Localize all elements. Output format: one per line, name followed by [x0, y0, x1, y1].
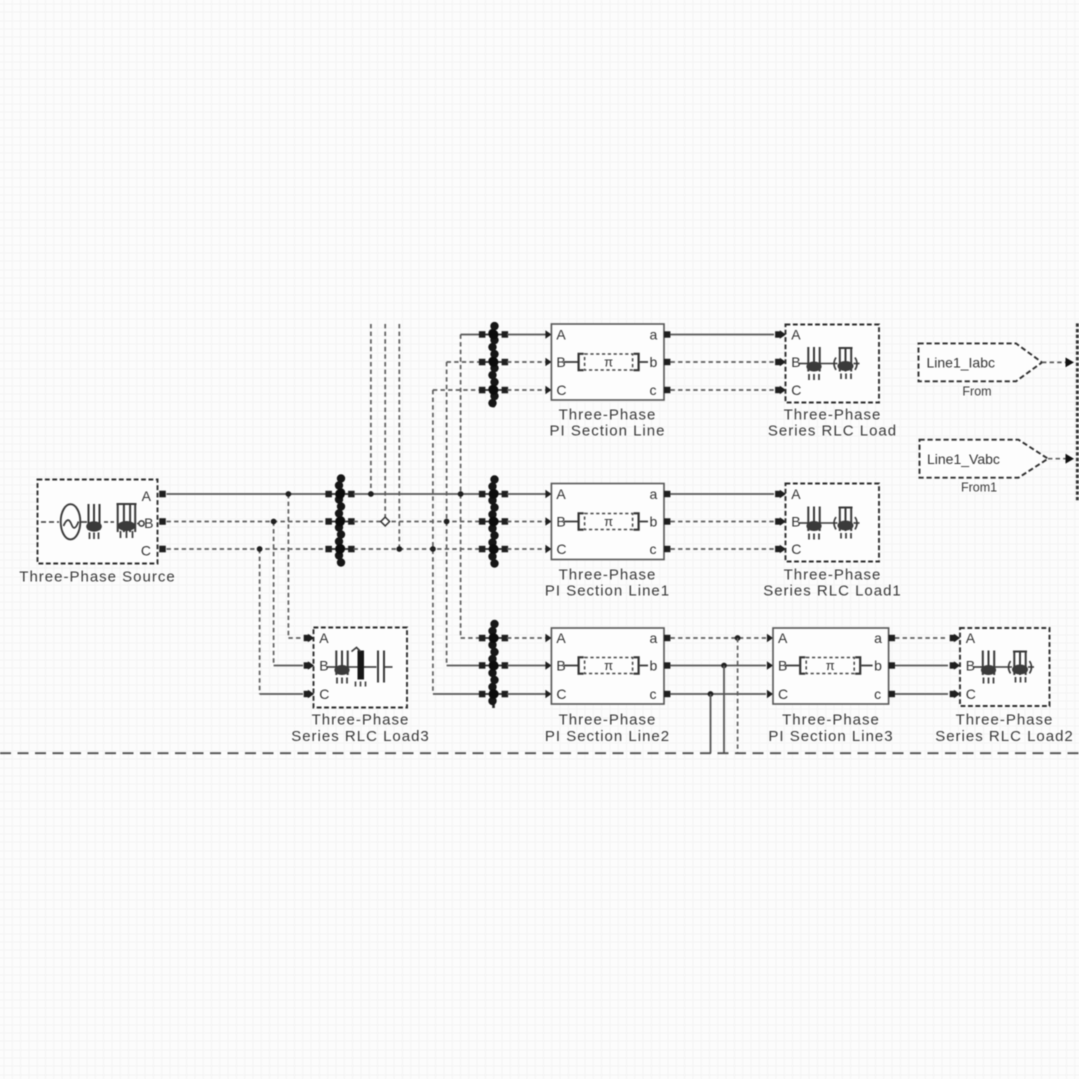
svg-text:B: B — [966, 657, 975, 673]
svg-text:A: A — [319, 630, 329, 646]
input arrow B PI line1 — [545, 517, 551, 526]
svg-text:C: C — [791, 541, 801, 557]
wire vertical B row1-row3 — [446, 362, 448, 666]
wire row2 B B3 to PI line1 — [507, 521, 546, 523]
svg-text:π: π — [826, 658, 835, 673]
output port b PI line2 — [664, 662, 670, 668]
svg-text:Three-Phase: Three-Phase — [956, 712, 1054, 729]
wire vertical A row1-row3 — [460, 335, 462, 639]
input arrow C PI line — [545, 386, 551, 395]
wire phase A bus B1 to B3 — [354, 493, 481, 495]
junction B upward stub (hollow diamond) — [381, 517, 390, 526]
label Three-Phase Series RLC Load1 — [763, 567, 902, 600]
junction junction A upward stub — [368, 491, 374, 497]
arrowhead From1 — [1066, 454, 1075, 464]
block Three-Phase Series RLC Load1 — [786, 484, 880, 562]
block Three-Phase Source — [38, 480, 166, 564]
wire row3 C stub to B4 — [433, 693, 480, 695]
input port A RLC load — [775, 331, 781, 337]
wire row3 B stub to B4 — [447, 665, 480, 667]
from tag Line1_Iabc — [919, 343, 1043, 381]
svg-text:Three-Phase: Three-Phase — [559, 712, 657, 729]
output port c PI line2 — [664, 691, 670, 697]
svg-text:Series RLC Load1: Series RLC Load1 — [763, 583, 902, 600]
input port B RLC load — [775, 359, 781, 365]
block Three-Phase PI Section Line2 — [551, 628, 664, 704]
output port b PI line3 — [889, 662, 895, 668]
svg-text:π: π — [604, 514, 613, 529]
svg-text:Series RLC Load: Series RLC Load — [768, 423, 897, 440]
wire row1 a PI line to RLC load — [671, 334, 775, 336]
input port B RLC load2 — [950, 662, 956, 668]
svg-text:Three-Phase: Three-Phase — [559, 407, 657, 424]
input arrow A PI line3 — [767, 634, 773, 643]
wire stub C into Load3 — [260, 693, 303, 695]
svg-text:π: π — [604, 355, 613, 370]
svg-text:C: C — [556, 382, 566, 398]
svg-text:A: A — [556, 326, 566, 342]
svg-text:c: c — [650, 382, 657, 398]
input arrow C PI line1 — [545, 545, 551, 554]
block Three-Phase Series RLC Load2 — [960, 628, 1050, 706]
junction bus B tap — [271, 519, 277, 525]
wire From1 to scope — [1048, 458, 1066, 460]
svg-text:a: a — [650, 326, 658, 342]
input port A RLC load1 — [775, 491, 781, 497]
output port a PI line — [664, 331, 670, 337]
input arrow C PI line3 — [767, 690, 773, 699]
block Three-Phase PI Section Line3 — [773, 628, 889, 704]
svg-text:c: c — [650, 686, 657, 702]
wire row2 C B3 to PI line1 — [507, 548, 546, 550]
wire row3 A stub to B4 — [461, 637, 480, 639]
wire row2 a PI line1 to RLC load1 — [671, 493, 775, 495]
input arrow B PI line3 — [767, 661, 773, 670]
junction junction a drop — [735, 635, 741, 641]
input arrow C PI line2 — [545, 690, 551, 699]
wire phase C source to breaker B1 — [167, 548, 327, 550]
svg-text:c: c — [650, 541, 657, 557]
input arrow A PI line — [545, 330, 551, 339]
output port a PI line2 — [664, 635, 670, 641]
svg-text:B: B — [791, 354, 800, 370]
svg-text:π: π — [604, 658, 613, 673]
wire row2 b PI line1 to RLC load1 — [671, 521, 775, 523]
input port C RLC load2 — [950, 691, 956, 697]
input arrow A PI line1 — [545, 490, 551, 499]
wire stub A into Load3 — [288, 637, 303, 639]
label Three-Phase PI Section Line2 — [545, 712, 670, 746]
svg-text:b: b — [650, 513, 658, 529]
wire row1 C B2 to PI line — [507, 389, 546, 391]
output port a PI line3 — [889, 635, 895, 641]
wire row1 c PI line to RLC load — [671, 389, 775, 391]
wire phase B bus B1 to B3 — [354, 521, 481, 523]
wire row1 A stub to B2 — [461, 334, 480, 336]
label Three-Phase PI Section Line3 — [768, 712, 893, 746]
output port b PI line — [664, 359, 670, 365]
svg-text:Line1_Vabc: Line1_Vabc — [927, 451, 1000, 467]
svg-text:Three-Phase Source: Three-Phase Source — [19, 569, 175, 586]
svg-text:B: B — [319, 657, 328, 673]
input port B RLC load1 — [775, 518, 781, 524]
svg-text:PI Section Line3: PI Section Line3 — [768, 728, 893, 745]
wire vertical C row1-row3 — [432, 390, 434, 694]
block Three-Phase PI Section Line — [551, 324, 664, 400]
svg-text:Series RLC Load2: Series RLC Load2 — [935, 728, 1074, 745]
wire row1 B B2 to PI line — [507, 361, 546, 363]
wire row3 B B4 to PI line2 — [507, 665, 546, 667]
label Three-Phase PI Section Line1 — [545, 567, 670, 600]
wire vertical tap B to Load3 — [273, 522, 275, 666]
svg-text:C: C — [778, 686, 788, 702]
junction junction C upward stub — [396, 546, 402, 552]
svg-text:Three-Phase: Three-Phase — [782, 712, 880, 729]
block Three-Phase Series RLC Load — [786, 325, 880, 403]
input port C RLC load — [775, 387, 781, 393]
block Three-Phase PI Section Line1 — [551, 484, 664, 560]
wire phase A source to breaker B1 — [167, 493, 327, 495]
svg-text:B: B — [791, 513, 800, 529]
input arrow A PI line2 — [545, 634, 551, 643]
input port A RLC load2 — [950, 635, 956, 641]
wire vertical stub B upward — [384, 324, 386, 522]
wire phase C bus B1 to B3 — [354, 548, 481, 550]
svg-text:A: A — [791, 326, 801, 342]
wire row2 c PI line1 to RLC load1 — [671, 548, 775, 550]
wire row1 A B2 to PI line — [507, 334, 546, 336]
arrowhead From — [1066, 358, 1075, 368]
svg-text:C: C — [556, 541, 566, 557]
wire row3 c PI line3 to load2 — [895, 693, 948, 695]
output port a PI line1 — [664, 491, 670, 497]
svg-text:a: a — [650, 486, 658, 502]
svg-text:A: A — [556, 486, 566, 502]
svg-text:PI Section Line1: PI Section Line1 — [545, 583, 670, 600]
junction junction A row2 — [458, 491, 464, 497]
output port c PI line3 — [889, 691, 895, 697]
wire row3 a PI line2 to line3 — [671, 637, 767, 639]
wire row3 a PI line3 to load2 — [895, 637, 948, 639]
input port C RLC load3 — [304, 691, 310, 697]
label Three-Phase Series RLC Load3 — [291, 712, 430, 746]
svg-text:From: From — [962, 385, 991, 399]
wire row3 b PI line2 to line3 — [671, 665, 767, 667]
boundary dashed line — [0, 752, 1079, 754]
svg-text:a: a — [650, 630, 658, 646]
junction bus A tap — [286, 491, 292, 497]
svg-text:C: C — [966, 686, 976, 702]
svg-text:Line1_Iabc: Line1_Iabc — [927, 355, 996, 371]
svg-text:Three-Phase: Three-Phase — [784, 407, 882, 424]
three-phase breaker B1 — [325, 474, 354, 566]
junction bus C tap — [257, 546, 263, 552]
junction junction C row2 — [430, 546, 436, 552]
wire vertical stub C upward — [398, 324, 400, 549]
wire row1 C stub to B2 — [433, 389, 480, 391]
wire phase B source to breaker B1 — [167, 521, 327, 523]
output port c PI line1 — [664, 546, 670, 552]
wire row3 A B4 to PI line2 — [507, 637, 546, 639]
svg-text:C: C — [556, 686, 566, 702]
svg-text:A: A — [791, 486, 801, 502]
wire vertical tap A to Load3 — [287, 494, 289, 638]
wire drop c to boundary — [710, 694, 712, 753]
svg-text:C: C — [141, 542, 151, 558]
svg-text:A: A — [966, 630, 976, 646]
svg-text:Three-Phase: Three-Phase — [784, 567, 882, 584]
svg-text:b: b — [650, 657, 658, 673]
svg-text:Three-Phase: Three-Phase — [312, 712, 410, 729]
block Three-Phase Series RLC Load3 — [314, 628, 408, 708]
svg-text:A: A — [556, 630, 566, 646]
svg-text:C: C — [319, 686, 329, 702]
svg-text:PI Section Line: PI Section Line — [550, 423, 666, 440]
svg-text:A: A — [142, 488, 152, 504]
wire row3 b PI line3 to load2 — [895, 665, 948, 667]
wire row1 B stub to B2 — [447, 361, 480, 363]
three-phase breaker B2 — [479, 322, 508, 408]
svg-text:b: b — [874, 657, 882, 673]
input arrow B PI line2 — [545, 661, 551, 670]
label Three-Phase Series RLC Load — [768, 407, 897, 440]
label Three-Phase Series RLC Load2 — [935, 712, 1074, 746]
from tag Line1_Vabc — [920, 440, 1049, 478]
wire row3 C B4 to PI line2 — [507, 693, 546, 695]
svg-text:C: C — [791, 382, 801, 398]
three-phase breaker B3 — [479, 475, 508, 567]
svg-text:b: b — [650, 354, 658, 370]
three-phase breaker B4 — [479, 620, 508, 708]
wire row2 A B3 to PI line1 — [507, 493, 546, 495]
junction junction b drop — [721, 663, 727, 669]
svg-text:From1: From1 — [961, 481, 997, 495]
junction junction B row2 — [444, 519, 450, 525]
wire From to scope — [1042, 361, 1066, 363]
output port c PI line — [664, 387, 670, 393]
wire row1 b PI line to RLC load — [671, 361, 775, 363]
input port C RLC load1 — [775, 546, 781, 552]
svg-text:a: a — [874, 630, 882, 646]
wire vertical tap C to Load3 — [259, 549, 261, 694]
svg-text:B: B — [144, 515, 153, 531]
svg-text:Three-Phase: Three-Phase — [559, 567, 657, 584]
output port b PI line1 — [664, 518, 670, 524]
wire drop b to boundary — [723, 666, 725, 754]
input port A RLC load3 — [304, 635, 310, 641]
svg-text:Series RLC Load3: Series RLC Load3 — [291, 728, 430, 745]
svg-text:c: c — [874, 686, 881, 702]
svg-text:A: A — [778, 630, 788, 646]
svg-text:PI Section Line2: PI Section Line2 — [545, 728, 670, 745]
scope block edge (clipped) — [1076, 323, 1079, 500]
wire vertical stub A upward — [370, 324, 372, 494]
wire drop a to boundary — [737, 638, 739, 753]
wire stub B into Load3 — [274, 665, 303, 667]
input port B RLC load3 — [304, 662, 310, 668]
label Three-Phase PI Section Line — [550, 407, 666, 440]
wire row3 c PI line2 to line3 — [671, 693, 767, 695]
junction junction c drop — [708, 691, 714, 697]
input arrow B PI line — [545, 358, 551, 367]
